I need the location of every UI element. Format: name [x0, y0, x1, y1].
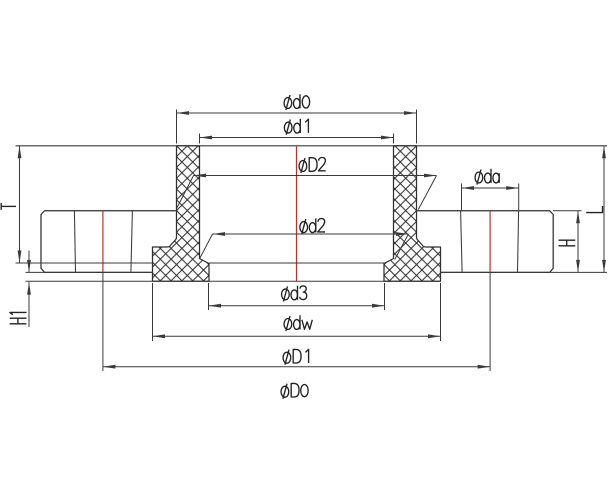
bore shoulder edge across socket: [209, 262, 384, 264]
dimension phi da: [462, 187, 519, 189]
stub end (hatched collar), left section: [153, 146, 210, 281]
bolt hole centreline (red), right: [489, 211, 491, 273]
ring bottom extension for H and L, right: [441, 271, 608, 273]
stub end (hatched collar), right section: [384, 146, 441, 281]
stub top face line with T and L extension lines: [16, 145, 608, 147]
dimension phi d1: [200, 137, 394, 139]
ring step line + T extension line: [16, 262, 153, 264]
bolt hole edge lines, left ring: [74, 211, 75, 273]
dimension H1: [28, 251, 30, 273]
dimension L: [603, 146, 605, 273]
bolt hole edge lines, right ring: [461, 211, 463, 273]
ring top extension for H, right: [553, 210, 582, 212]
dimension phi D2: [194, 175, 437, 177]
bolt hole centreline (red), left: [102, 211, 104, 273]
dimension H: [577, 211, 579, 273]
dimension phi d3: [209, 305, 385, 307]
main centreline (red): [296, 146, 298, 281]
dimension T: [19, 146, 21, 263]
dimension phi d0: [177, 112, 417, 114]
flare bottom edge + H1 extension: [26, 280, 441, 282]
backing flange ring, left: [41, 211, 177, 273]
dimension phi D1: [103, 366, 490, 368]
ring bottom extension (H1), left: [26, 271, 153, 273]
backing flange ring, right: [417, 211, 554, 273]
label phi D0: [281, 386, 289, 397]
dimension phi d2: [213, 233, 409, 235]
dimension phi dw: [153, 335, 441, 337]
